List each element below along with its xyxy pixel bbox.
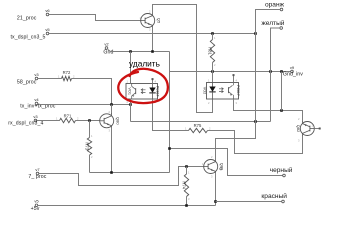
wire red to Q81 emitter	[216, 201, 282, 203]
wire orange drop	[216, 10, 281, 160]
svg-text:удалить: удалить	[129, 59, 160, 69]
junction link on drop	[168, 147, 171, 150]
resistor R72	[58, 70, 75, 81]
wire R75 to Q82 emitter loop	[208, 131, 303, 154]
optocoupler U VO2 box	[203, 83, 240, 100]
VO1 pin2 down through tx_inv to emitter rail	[130, 99, 132, 122]
wire Q80 collector	[111, 105, 113, 115]
svg-text:оранж: оранж	[265, 1, 285, 8]
VO2 pin4 stub unconnected	[208, 74, 238, 105]
junction R81 top on tx rail	[211, 32, 214, 35]
port v5 net +5v	[31, 199, 40, 212]
svg-text:tx_dspl_cn3_5: tx_dspl_cn3_5	[10, 35, 45, 41]
wire 7_proc to Q81 base	[39, 167, 204, 186]
resistor R73	[85, 121, 94, 173]
port v6 net 21_proc	[17, 8, 50, 22]
wire Q81 collector up to orange net	[215, 139, 217, 160]
resistor R71	[56, 114, 79, 123]
junction VO1 pin2 on tx_inv	[129, 103, 132, 106]
svg-text:Q5: Q5	[157, 18, 162, 24]
wire +5v rail	[38, 205, 216, 207]
wire VO1 emitter rail to yellow drop	[131, 121, 271, 123]
svg-text:R71: R71	[64, 114, 72, 119]
optocoupler U VO1 box	[126, 84, 159, 100]
svg-text:Gnd: Gnd	[103, 50, 113, 56]
junction Gnd_inv drop on VO2 emitter wire	[280, 109, 283, 112]
junction R74 top on Q81 base wire	[185, 165, 188, 168]
port v5 net tx_dspl_cn3_5	[10, 27, 50, 41]
junction Q80 collector 58_proc on tx_inv	[110, 103, 113, 106]
wire tx_dspl_cn3_5 rail	[49, 33, 256, 35]
svg-text:Q80: Q80	[116, 117, 121, 125]
VO2 pin3 to Q82 collector	[234, 99, 303, 122]
junction yellow drop on Gnd_inv rail	[269, 70, 272, 73]
junction R74 bottom on +5v rail	[185, 204, 188, 207]
junction R73 top on Q80 base wire	[88, 119, 91, 122]
svg-text:+5v: +5v	[31, 206, 40, 212]
Q81 case pin mark	[220, 168, 222, 170]
svg-text:PC817: PC817	[236, 85, 240, 95]
VO1 pin1 to Gnd rail	[127, 52, 157, 105]
svg-text:Q82: Q82	[296, 125, 301, 133]
svg-text:rx_dspl_cn3_4: rx_dspl_cn3_4	[8, 121, 43, 127]
transistor Q82	[296, 117, 315, 143]
svg-text:черный: черный	[270, 166, 293, 174]
port v9 net Gnd_inv	[283, 65, 303, 78]
resistor R75	[185, 123, 211, 133]
junction red takeoff on emitter	[214, 200, 217, 203]
svg-text:7_ proc: 7_ proc	[28, 174, 46, 180]
VO1 LED element	[149, 84, 155, 100]
wire Gnd_inv rail	[170, 71, 291, 73]
port red	[261, 192, 287, 203]
VO2 phototransistor element	[229, 83, 234, 100]
port yellow	[261, 19, 284, 29]
port v3 net rx_dspl_cn3_4	[8, 114, 43, 127]
svg-text:58_proc: 58_proc	[17, 80, 37, 86]
junction R81-VO2 on Gnd_inv rail	[211, 70, 214, 73]
svg-text:21_proc: 21_proc	[17, 16, 37, 22]
red hand-drawn ellipse marker	[118, 69, 168, 103]
VO2 light arrows pointing right	[219, 88, 223, 93]
port v3 net 58_proc	[17, 72, 39, 86]
transistor Q81	[202, 155, 225, 179]
svg-text:красный: красный	[261, 192, 287, 200]
VO1 pin3 down to R75 wire	[153, 99, 189, 131]
wire link black to Gnd vertical	[170, 149, 283, 176]
wire rx_dspl to R71	[37, 120, 60, 122]
port v7 net 7_proc	[28, 167, 46, 180]
svg-text:R81: R81	[207, 47, 212, 55]
junction orange crossing on emitter rail	[254, 120, 257, 123]
resistor R74	[181, 167, 190, 206]
wire R71 to Q80 base	[76, 120, 101, 122]
port v2 net Gnd	[103, 41, 113, 55]
svg-text:VO2: VO2	[203, 87, 207, 95]
port v4 net tx_inv+tx_proc	[20, 97, 56, 110]
wire Q5 collector loop to VO2 pin2	[153, 5, 213, 113]
junction orange drop on tx rail	[254, 32, 257, 35]
port orange	[265, 1, 285, 10]
port black	[270, 166, 293, 177]
wire long vertical Gnd drop	[169, 52, 171, 173]
wire Q80 emitter	[111, 128, 113, 173]
svg-text:R74: R74	[181, 181, 186, 189]
VO1 phototransistor element	[132, 84, 136, 100]
wire A bottom rail	[90, 172, 170, 174]
Q82 base stub unconnected	[314, 128, 320, 130]
junction Q80 emitter on wire A	[110, 171, 113, 174]
wire tx_inv rail	[38, 103, 131, 106]
wire yellow drop	[271, 28, 280, 122]
svg-text:Gnd_inv: Gnd_inv	[283, 72, 303, 78]
wire 21_proc to Q5 base	[49, 15, 141, 21]
svg-text:R72: R72	[63, 70, 71, 75]
transistor Q5	[140, 10, 162, 32]
wire Gnd_inv drop	[281, 72, 283, 111]
wire Q5 emitter to Gnd rail	[152, 28, 154, 52]
svg-text:желтый: желтый	[261, 19, 284, 27]
wire Q81 emitter down	[215, 174, 217, 206]
VO2 LED element	[209, 83, 215, 100]
wire R72 to Q80 collector node	[72, 79, 112, 105]
svg-text:R73: R73	[85, 142, 90, 150]
wire 58_proc to R72	[38, 78, 62, 80]
svg-text:PC817: PC817	[155, 86, 159, 96]
transistor Q80	[100, 110, 121, 133]
junction VO1 pin1 on Gnd rail	[129, 50, 132, 53]
resistor R81	[207, 34, 216, 83]
junction Q5 emitter VO1 area on Gnd rail	[151, 50, 154, 53]
svg-text:R75: R75	[194, 123, 202, 128]
VO1 pin4 stub unconnected	[152, 78, 154, 83]
wire Gnd rail	[108, 50, 170, 52]
junction right drop on Gnd_inv rail	[280, 70, 283, 73]
svg-text:VO1: VO1	[128, 87, 132, 95]
VO1 light arrows pointing left	[141, 89, 145, 94]
